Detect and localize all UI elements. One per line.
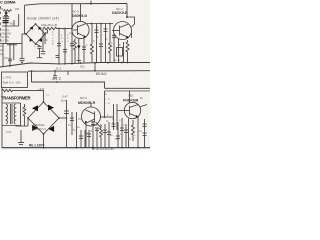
svg-text:A: A	[104, 97, 106, 101]
svg-text:6.3V: 6.3V	[6, 130, 12, 134]
svg-text:FNDKNR: FNDKNR	[123, 99, 139, 103]
svg-text:100n 2A5: 100n 2A5	[0, 32, 12, 36]
svg-text:C61 25-w-B: C61 25-w-B	[41, 23, 57, 27]
svg-text:4k 1W 10u 2n2 4k7: 4k 1W 10u 2n2 4k7	[92, 147, 115, 150]
svg-text:1 TPS: 1 TPS	[3, 76, 11, 80]
svg-text:MC-9: MC-9	[72, 10, 79, 14]
svg-text:Mylar: Mylar	[61, 99, 67, 103]
svg-text:+1.5: +1.5	[38, 87, 44, 91]
svg-text:22u 35v: 22u 35v	[0, 35, 10, 39]
svg-text:A: A	[105, 92, 107, 96]
svg-text:B1k: B1k	[80, 65, 85, 69]
svg-text:b.2: b.2	[46, 94, 50, 97]
svg-text:D8CK9-B: D8CK9-B	[112, 11, 128, 15]
svg-text:1 5: 1 5	[91, 40, 95, 43]
svg-text:TRANSFORMER: TRANSFORMER	[1, 96, 31, 101]
svg-text:Ball S.A. 15A: Ball S.A. 15A	[3, 81, 21, 85]
svg-text:4.7k 2w: 4.7k 2w	[0, 28, 9, 32]
svg-text:4k7: 4k7	[99, 132, 104, 135]
svg-text:1u .5: 1u .5	[114, 58, 120, 62]
svg-text:MC-9: MC-9	[80, 96, 87, 100]
svg-text:18F: 18F	[15, 8, 20, 11]
svg-text:D80K9-G: D80K9-G	[72, 14, 87, 18]
svg-text:2w: 2w	[0, 49, 3, 52]
svg-text:C 220MA: C 220MA	[0, 0, 16, 5]
svg-text:78Ω: 78Ω	[128, 94, 133, 98]
svg-text:4Ω=: 4Ω=	[10, 23, 15, 26]
svg-text:MDKNR-R: MDKNR-R	[78, 101, 96, 105]
svg-text:89.1kΩ: 89.1kΩ	[96, 72, 107, 76]
svg-text:0.47: 0.47	[62, 95, 68, 99]
svg-text:4±1°Z: 4±1°Z	[52, 77, 61, 81]
svg-text:2L 5: 2L 5	[56, 67, 62, 71]
svg-text:1N4007x4: 1N4007x4	[32, 127, 46, 131]
svg-text:1B: 1B	[0, 8, 3, 11]
svg-text:Diode 1N4007 (x4): Diode 1N4007 (x4)	[27, 16, 59, 20]
svg-text:1k2 5%: 1k2 5%	[0, 39, 9, 43]
svg-text:2n2: 2n2	[115, 138, 120, 141]
svg-text:Rb.1 1R70: Rb.1 1R70	[29, 144, 45, 148]
